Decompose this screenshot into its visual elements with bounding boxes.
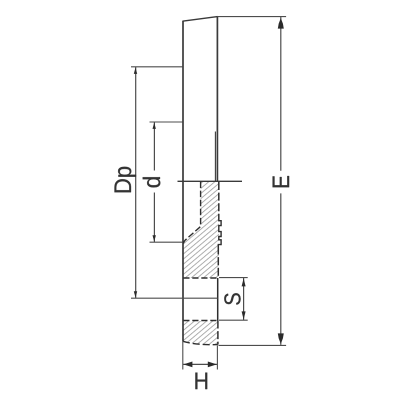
dimension Dp: arrow up (134, 68, 137, 74)
dimension Dp: dimension line (135, 67, 137, 298)
dimension H: right extension line (216, 346, 218, 370)
part outline: left edge (182, 21, 184, 341)
label Dp (115, 167, 137, 193)
dimension E: dimension line upper segment (280, 17, 282, 171)
dimension d: dimension line upper segment (153, 122, 155, 171)
hidden bore boundary dashed (vertical + curve) (183, 182, 200, 244)
dimension Dp: arrow down (134, 291, 137, 297)
right edge lower dashed (above thread) (218, 182, 220, 220)
dimension E: dimension line lower segment (280, 193, 282, 345)
dimension H: left extension line (182, 341, 184, 370)
dimension H: arrow right (208, 362, 217, 368)
dimension S: dimension line (243, 278, 245, 321)
label d (143, 177, 161, 187)
label S (224, 293, 240, 305)
dimension d: top extension line (150, 121, 183, 123)
dimension d: arrow down (153, 235, 156, 241)
dimension S: arrow up (242, 278, 246, 286)
dimension E: top extension line (218, 16, 287, 18)
dimension d: bottom extension line (150, 241, 183, 243)
dimension S: bottom extension line (219, 319, 248, 321)
dimension E: arrow up (278, 18, 284, 29)
dimension E: arrow down (278, 333, 284, 344)
dimension d: arrow up (153, 123, 156, 129)
part outline: right edge upper (216, 17, 218, 182)
thread teeth (solid steps) (218, 220, 221, 247)
hatched section area lower (175, 315, 230, 350)
part outline: top edge (sloped) (182, 17, 217, 22)
right edge below groove dashed (217, 321, 219, 345)
groove hidden edge bottom dashed (183, 320, 217, 322)
dimension Dp: top extension line (131, 66, 183, 68)
dimension S: arrow down (242, 311, 246, 319)
section break line at y=181.5 (178, 180, 243, 182)
dimension E: bottom extension line (219, 344, 287, 346)
right edge at groove (solid) (217, 278, 219, 321)
hatched section area upper (175, 175, 230, 285)
bottom edge dashed curve (183, 341, 218, 344)
label H (195, 373, 207, 390)
dimension S: top extension line (219, 277, 248, 279)
dimension H: arrow left (183, 362, 192, 368)
inner relief line near right edge (214, 132, 216, 182)
dimension Dp: bottom extension line (through groove) (131, 297, 218, 299)
label E (273, 176, 290, 187)
right edge lower dashed (below thread) (217, 247, 219, 279)
dimension H: dimension line (183, 363, 217, 365)
groove hidden edge top dashed (183, 277, 217, 279)
dimension d: dimension line lower segment (153, 193, 155, 243)
